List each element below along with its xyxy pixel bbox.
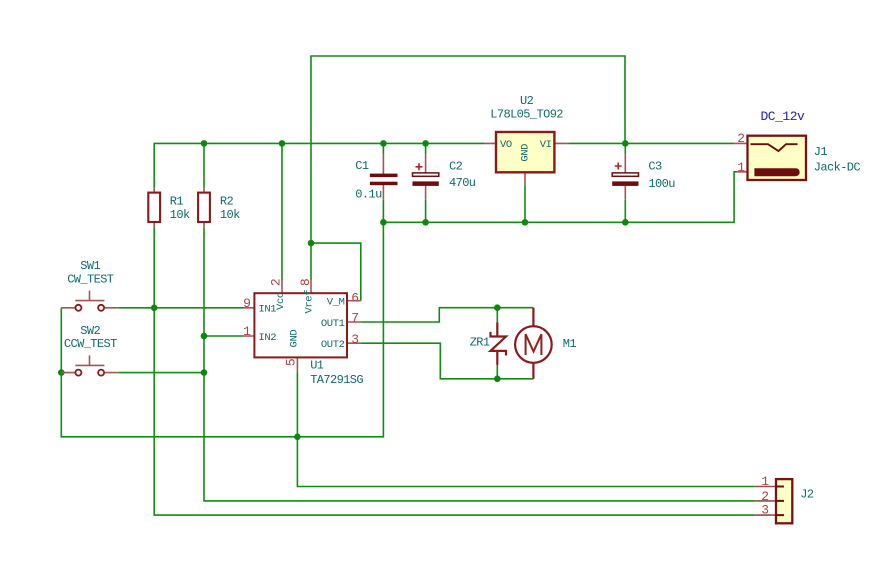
switch SW1 [61, 259, 118, 311]
connector J2 [755, 474, 814, 523]
wire C2 top stub [425, 143, 427, 153]
node rail C2 [422, 140, 429, 147]
capacitor C1 [355, 154, 397, 202]
wire C3 top stub [624, 143, 626, 153]
node IN1 junction [151, 305, 158, 312]
wire OUT1 to motor top [362, 308, 534, 322]
svg-text:3: 3 [351, 332, 358, 347]
node SW2 left junction [58, 369, 65, 376]
svg-text:GND: GND [520, 144, 532, 162]
svg-text:U2: U2 [520, 94, 534, 108]
wire Vref riser lower part [310, 243, 312, 280]
svg-text:IN1: IN1 [259, 304, 277, 316]
svg-text:C3: C3 [648, 160, 662, 174]
svg-text:VO: VO [500, 139, 512, 151]
wire R2 column down to J2 pin2 [204, 227, 755, 501]
wire R1 column down to J2 pin3 [154, 227, 755, 515]
wire 5V rail from R1 top to U2 VO [154, 143, 484, 187]
varistor ZR1 [470, 322, 506, 365]
wire IN2 stub from R2 column [204, 335, 244, 337]
switch SW2 [61, 324, 118, 376]
svg-text:3: 3 [761, 503, 768, 518]
wire R2 top stub [203, 143, 205, 187]
svg-text:0.1u: 0.1u [355, 188, 382, 202]
resistor R1 [148, 188, 190, 228]
svg-text:6: 6 [351, 290, 358, 305]
svg-text:L78L05_TO92: L78L05_TO92 [490, 107, 563, 121]
svg-text:C1: C1 [355, 159, 369, 173]
svg-text:5: 5 [284, 359, 299, 366]
wire 12V bypass net (VI to Vref/V_M riser) [311, 56, 625, 243]
svg-text:OUT1: OUT1 [321, 318, 345, 330]
node rail C1 [380, 140, 387, 147]
wire ZR1 top stub [496, 308, 498, 323]
svg-text:10k: 10k [220, 208, 240, 222]
svg-text:8: 8 [298, 279, 313, 286]
svg-text:VI: VI [540, 139, 552, 151]
wire GND mid rail to J1 pin1 [383, 172, 736, 223]
node ZR1 bottom [494, 376, 501, 383]
node gnd U2 [522, 219, 529, 226]
svg-text:1: 1 [243, 324, 251, 339]
capacitor C2 (polarized) [413, 154, 476, 200]
connector J1 Jack-DC [734, 109, 860, 180]
wire C2 bottom stub [425, 200, 427, 223]
svg-text:GND: GND [289, 330, 301, 348]
node SW2 right junction [201, 369, 208, 376]
node GND pin5 junction [294, 434, 301, 441]
svg-text:2: 2 [737, 131, 744, 146]
capacitor C3 (polarized) [612, 154, 675, 200]
node Vref junction [308, 240, 315, 247]
wire ZR1 bottom stub [496, 365, 498, 379]
svg-text:J1: J1 [814, 145, 828, 159]
svg-text:R2: R2 [220, 194, 234, 208]
wire OUT2 to motor bottom [362, 343, 534, 379]
IC U1 TA7291SG [243, 279, 363, 387]
wire SW1 to IC IN1 [118, 307, 244, 309]
node rail R2 [201, 140, 208, 147]
svg-text:CW_TEST: CW_TEST [67, 272, 114, 286]
wire Vcc riser [281, 143, 283, 280]
svg-text:Vref: Vref [304, 290, 316, 314]
resistor R2 [198, 188, 240, 228]
svg-text:SW2: SW2 [80, 324, 100, 338]
node rail Vcc [279, 140, 286, 147]
svg-text:R1: R1 [170, 194, 184, 208]
svg-text:Vcc: Vcc [275, 292, 287, 310]
svg-text:M1: M1 [563, 337, 577, 351]
wire C3 bottom stub [624, 200, 626, 223]
wire IC GND pin5 down to J2 pin1 [297, 372, 754, 486]
wire VI to J1 pin2 [569, 142, 735, 144]
svg-text:TA7291SG: TA7291SG [310, 373, 363, 387]
node ZR1 top [494, 304, 501, 311]
svg-text:10k: 10k [170, 208, 190, 222]
motor M1 [515, 308, 576, 379]
svg-text:1: 1 [761, 474, 769, 489]
wire SW2 to R2 column [118, 372, 204, 374]
node rail C3/VI [622, 140, 629, 147]
svg-text:470u: 470u [449, 176, 476, 190]
svg-text:IN2: IN2 [259, 332, 277, 344]
svg-text:9: 9 [243, 296, 250, 311]
svg-text:V_M: V_M [327, 297, 345, 309]
wire C1 bottom stub [382, 200, 384, 223]
wire U2 GND stub [524, 186, 526, 222]
wire GND drop and bottom rail to switches column [61, 222, 383, 436]
svg-text:SW1: SW1 [80, 259, 100, 273]
svg-text:OUT2: OUT2 [321, 339, 345, 351]
wire Vref junction to V_M pin [311, 243, 361, 301]
svg-text:J2: J2 [800, 488, 814, 502]
svg-text:CCW_TEST: CCW_TEST [64, 337, 117, 351]
node gnd C3 [622, 219, 629, 226]
svg-text:Jack-DC: Jack-DC [814, 161, 861, 175]
svg-text:1: 1 [737, 160, 745, 175]
wire C1 top stub [382, 143, 384, 153]
svg-text:7: 7 [351, 311, 358, 326]
svg-text:2: 2 [269, 279, 284, 286]
svg-text:U1: U1 [310, 359, 324, 373]
svg-text:ZR1: ZR1 [470, 335, 490, 349]
svg-text:C2: C2 [449, 160, 463, 174]
node gnd C2 [422, 219, 429, 226]
svg-text:100u: 100u [648, 177, 675, 191]
node IN2 junction [201, 333, 208, 340]
regulator U2 L78L05 [484, 94, 569, 186]
svg-text:DC_12v: DC_12v [760, 109, 805, 124]
node gnd C1 [380, 219, 387, 226]
